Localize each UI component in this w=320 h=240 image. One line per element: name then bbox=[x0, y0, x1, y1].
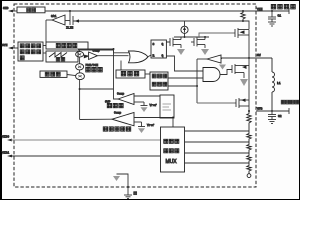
outer frame bbox=[1, 1, 300, 200]
wire AND out to Q2 gate bbox=[220, 70, 232, 75]
svg-text:ILIM: ILIM bbox=[66, 27, 73, 30]
wire OR out bbox=[148, 55, 151, 57]
wire MUX tap 1 bbox=[185, 130, 250, 132]
wire bbox=[145, 73, 150, 75]
summing node S1 bbox=[76, 52, 84, 58]
current source I1 bbox=[181, 21, 188, 37]
capacitor C2 bbox=[268, 111, 282, 120]
wire gate of Q1 bbox=[199, 33, 235, 38]
internal ground hook bbox=[113, 174, 137, 198]
reference box U1 参考 bbox=[17, 7, 45, 13]
inductor L1 bbox=[272, 58, 281, 111]
node dot bbox=[172, 117, 174, 119]
wire bbox=[80, 88, 114, 90]
wire bbox=[79, 50, 81, 52]
driver FET Q5 bbox=[191, 37, 205, 48]
soft start box U11 软启动 bbox=[40, 71, 67, 77]
wire jog into OR bbox=[114, 49, 130, 53]
wire to mode select bbox=[45, 20, 47, 42]
label PWM/PSM 比较器 bbox=[86, 63, 103, 72]
arrow into comparator bbox=[84, 55, 89, 59]
svg-text:PWM/PSM: PWM/PSM bbox=[86, 63, 99, 67]
mode select box U8 模式选择 bbox=[46, 42, 88, 49]
wire ILIM rail bbox=[73, 20, 243, 22]
node dot bbox=[242, 10, 244, 12]
wire bbox=[79, 80, 81, 120]
bottom pin circle bbox=[247, 174, 251, 178]
gray arrow bbox=[219, 65, 226, 70]
label 输出电压 bbox=[281, 100, 299, 104]
node dot bbox=[242, 20, 244, 22]
svg-text:SYN: SYN bbox=[2, 44, 8, 47]
output voltage program MUX box U6 bbox=[161, 127, 185, 172]
node dot bbox=[69, 10, 71, 12]
reference V2 bbox=[138, 122, 154, 133]
wire VIN rail bbox=[45, 10, 289, 12]
sense capacitor plates bbox=[70, 11, 73, 25]
wire FF lower out bbox=[166, 56, 203, 71]
driver FET Q4 bbox=[166, 37, 181, 48]
SR flip-flop U2 bbox=[151, 40, 166, 58]
arrowhead bbox=[75, 19, 80, 22]
ground arrow bbox=[201, 49, 209, 55]
svg-text:R: R bbox=[153, 55, 155, 58]
OVP comparator U13 bbox=[117, 93, 160, 105]
wire FF to Q4 gate bbox=[166, 41, 170, 43]
wire buffer down bbox=[196, 59, 198, 103]
wire VOUT bbox=[256, 110, 289, 112]
sense box U5 bbox=[160, 95, 174, 118]
ground arrow bbox=[240, 79, 248, 86]
current-limit comparator OA1 bbox=[46, 15, 70, 25]
wire to OR bbox=[88, 48, 114, 50]
wire bbox=[78, 49, 114, 51]
svg-text:Q: Q bbox=[162, 55, 164, 58]
label OVP 比较器 bbox=[105, 101, 123, 108]
ground bbox=[268, 120, 276, 124]
node dot bbox=[79, 88, 81, 90]
wire bbox=[43, 52, 46, 54]
wire SW line bbox=[221, 57, 272, 59]
wire bbox=[243, 21, 249, 29]
svg-text:Vref: Vref bbox=[147, 123, 154, 127]
node dot bbox=[113, 48, 115, 50]
wire driver rail bbox=[174, 36, 209, 38]
svg-text:C2: C2 bbox=[278, 115, 282, 118]
summing node S3 bbox=[76, 70, 85, 80]
sync select box U7 同步选择和定时斜坡 bbox=[18, 42, 43, 61]
power PMOS Q1 bbox=[235, 28, 249, 58]
svg-text:Comp: Comp bbox=[114, 112, 121, 115]
label 误差放大器 bbox=[103, 127, 131, 131]
error amplifier U14 bbox=[80, 112, 142, 126]
summing node S2 bbox=[76, 57, 84, 70]
ramp generator box U9 斜坡 bbox=[46, 51, 78, 62]
pin SYN bbox=[2, 44, 18, 49]
thermal shutdown box U4 热关机 bbox=[116, 70, 145, 78]
capacitor C1 bbox=[268, 11, 281, 22]
node dot bbox=[248, 110, 250, 112]
svg-text:L1: L1 bbox=[277, 82, 281, 85]
svg-text:MUX: MUX bbox=[166, 159, 178, 165]
power NMOS Q3 bbox=[236, 58, 249, 111]
output terminal tick bbox=[288, 108, 290, 114]
reference V1 bbox=[141, 102, 157, 112]
feedback resistor string R2 bbox=[247, 111, 251, 174]
label 输入电压 bbox=[271, 4, 295, 9]
svg-text:SW: SW bbox=[257, 54, 261, 57]
wire thermal to OR bbox=[120, 61, 122, 71]
svg-text:VFB: VFB bbox=[257, 108, 263, 111]
node dot bbox=[248, 57, 250, 59]
svg-text:Comp: Comp bbox=[93, 50, 100, 53]
IC dashed boundary bbox=[14, 4, 256, 187]
node dot bbox=[271, 10, 273, 12]
wire linreg out1 bbox=[168, 77, 203, 79]
wire bbox=[172, 118, 174, 127]
wire AND in2 bbox=[197, 77, 203, 79]
ground bbox=[268, 22, 276, 26]
OR gate G1 bbox=[129, 51, 149, 63]
wire down to OVP bbox=[114, 49, 119, 99]
svg-text:Q: Q bbox=[162, 43, 164, 46]
svg-text:VIN: VIN bbox=[257, 8, 263, 11]
wire bbox=[67, 75, 76, 76]
svg-text:VID0: VID0 bbox=[2, 136, 9, 139]
zero-cross buffer U12 bbox=[197, 55, 222, 63]
node dot bbox=[204, 36, 206, 38]
sense resistor R1 bbox=[241, 11, 245, 21]
power NMOS Q2 bbox=[232, 64, 249, 78]
node dot bbox=[271, 110, 273, 112]
pin VID0 bbox=[2, 136, 161, 142]
PWM comparator U10 bbox=[89, 50, 129, 60]
node dot bbox=[184, 36, 186, 38]
linear regulator box U3 线性稳压器 bbox=[150, 72, 168, 90]
wire linreg out2 bbox=[168, 85, 197, 87]
svg-text:S: S bbox=[153, 43, 155, 46]
wire FB to error amp bbox=[134, 117, 173, 119]
wire MUX tap 4 bbox=[185, 162, 250, 164]
svg-text:Vref: Vref bbox=[150, 103, 157, 107]
wire MUX tap 2 bbox=[185, 141, 250, 143]
input terminal tick bbox=[288, 8, 290, 14]
pin SHD bbox=[3, 7, 17, 12]
AND gate G2 bbox=[203, 68, 220, 82]
node dot bbox=[196, 85, 198, 87]
svg-text:SHD: SHD bbox=[3, 7, 9, 10]
svg-text:C1: C1 bbox=[278, 15, 282, 18]
svg-text:VID1: VID1 bbox=[2, 152, 9, 155]
svg-text:OA1: OA1 bbox=[51, 15, 57, 18]
wire Q3 gate bbox=[197, 102, 236, 104]
pin VID1 bbox=[2, 152, 161, 158]
wire bbox=[43, 45, 46, 47]
svg-text:Comp: Comp bbox=[117, 93, 124, 96]
wire MUX tap 3 bbox=[185, 152, 250, 154]
ground arrow bbox=[177, 49, 185, 55]
